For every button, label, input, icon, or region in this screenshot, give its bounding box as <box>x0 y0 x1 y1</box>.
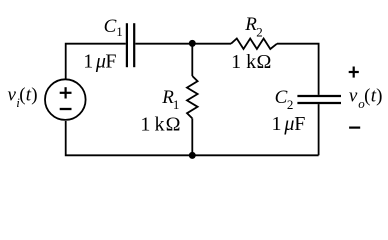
svg-text:1: 1 <box>231 51 241 73</box>
svg-text:(: ( <box>19 85 25 106</box>
svg-text:k: k <box>155 113 165 135</box>
svg-text:v: v <box>8 85 17 106</box>
svg-text:1: 1 <box>140 113 150 135</box>
svg-text:1: 1 <box>272 113 282 135</box>
capacitor C2 (shunt, right branch) <box>297 96 341 103</box>
svg-text:μ: μ <box>95 51 106 73</box>
value 1 kOhm (R1) <box>140 113 180 135</box>
wire: bottom rail <box>66 121 319 155</box>
wire: R1 bottom to node B <box>191 118 193 155</box>
wire: C1 right plate to node A <box>135 43 192 45</box>
svg-text:(: ( <box>364 85 370 106</box>
svg-text:1: 1 <box>173 97 180 112</box>
voltage source VS (independent source circle) <box>45 79 86 120</box>
node B (bottom junction dot) <box>189 152 196 159</box>
svg-text:): ) <box>31 85 37 106</box>
svg-text:1: 1 <box>83 51 93 73</box>
svg-text:F: F <box>294 113 305 135</box>
value 1 uF (C2) <box>272 113 306 135</box>
svg-text:C: C <box>104 16 117 37</box>
svg-text:v: v <box>349 85 358 106</box>
svg-text:μ: μ <box>283 113 294 135</box>
wire: top-left segment from source top corner to C1 left plate <box>66 44 126 79</box>
svg-text:C: C <box>275 87 288 108</box>
label + (output polarity) <box>349 67 359 78</box>
label vi(t) <box>8 85 38 111</box>
svg-text:Ω: Ω <box>166 113 181 135</box>
svg-text:2: 2 <box>256 24 263 39</box>
label R2 <box>244 14 263 39</box>
svg-text:1: 1 <box>116 24 123 39</box>
node A (top junction dot) <box>189 40 196 47</box>
label R1 <box>161 87 179 112</box>
capacitor C1 (series, top wire) <box>127 23 134 67</box>
label C2 <box>275 87 294 112</box>
svg-text:k: k <box>246 51 256 73</box>
value 1 uF (C1) <box>83 51 116 73</box>
wire: R2 right end to top-right corner down to C2 top plate <box>277 44 319 95</box>
resistor R2 (series, top wire) <box>231 39 277 50</box>
resistor R1 (shunt, middle branch) <box>187 76 198 118</box>
svg-text:2: 2 <box>287 97 294 112</box>
wire: node A down to R1 top <box>191 44 193 76</box>
svg-text:Ω: Ω <box>257 51 272 73</box>
label - (output polarity) <box>349 126 360 128</box>
wire: C2 bottom plate to bottom-right corner <box>318 104 320 155</box>
wire: node A to R2 left end <box>192 43 231 45</box>
svg-text:F: F <box>105 51 116 73</box>
svg-text:): ) <box>376 85 382 106</box>
label C1 <box>104 16 123 39</box>
label vo(t) <box>349 85 383 111</box>
value 1 kOhm (R2) <box>231 51 271 73</box>
